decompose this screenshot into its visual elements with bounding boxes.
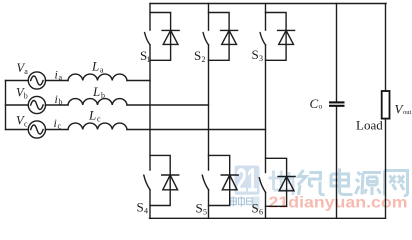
svg-text:c: c (97, 115, 101, 124)
svg-text:6: 6 (259, 208, 263, 217)
svg-text:b: b (24, 92, 28, 101)
svg-text:S: S (137, 200, 144, 215)
svg-text:21: 21 (236, 162, 258, 199)
svg-text:S: S (194, 48, 201, 63)
svg-text:a: a (100, 66, 104, 75)
svg-text:C: C (310, 96, 319, 111)
svg-text:S: S (252, 47, 259, 62)
svg-text:1: 1 (147, 55, 151, 64)
svg-text:a: a (59, 73, 63, 82)
svg-text:L: L (91, 59, 99, 74)
svg-text:out: out (403, 109, 412, 116)
svg-text:5: 5 (203, 208, 207, 217)
svg-text:i: i (55, 92, 58, 106)
svg-text:i: i (55, 68, 58, 82)
svg-text:S: S (196, 201, 203, 216)
svg-text:o: o (319, 102, 323, 111)
svg-text:L: L (92, 84, 100, 99)
svg-text:c: c (24, 120, 28, 129)
svg-text:3: 3 (259, 54, 263, 63)
svg-text:i: i (54, 116, 57, 130)
svg-text:a: a (24, 67, 28, 76)
svg-text:4: 4 (144, 207, 148, 216)
svg-text:21dianyuan.com: 21dianyuan.com (269, 195, 408, 212)
svg-text:c: c (58, 122, 62, 131)
svg-text:2: 2 (202, 55, 206, 64)
svg-text:L: L (88, 108, 96, 123)
svg-text:b: b (59, 98, 63, 107)
svg-text:b: b (101, 91, 105, 100)
svg-text:Load: Load (356, 118, 383, 133)
